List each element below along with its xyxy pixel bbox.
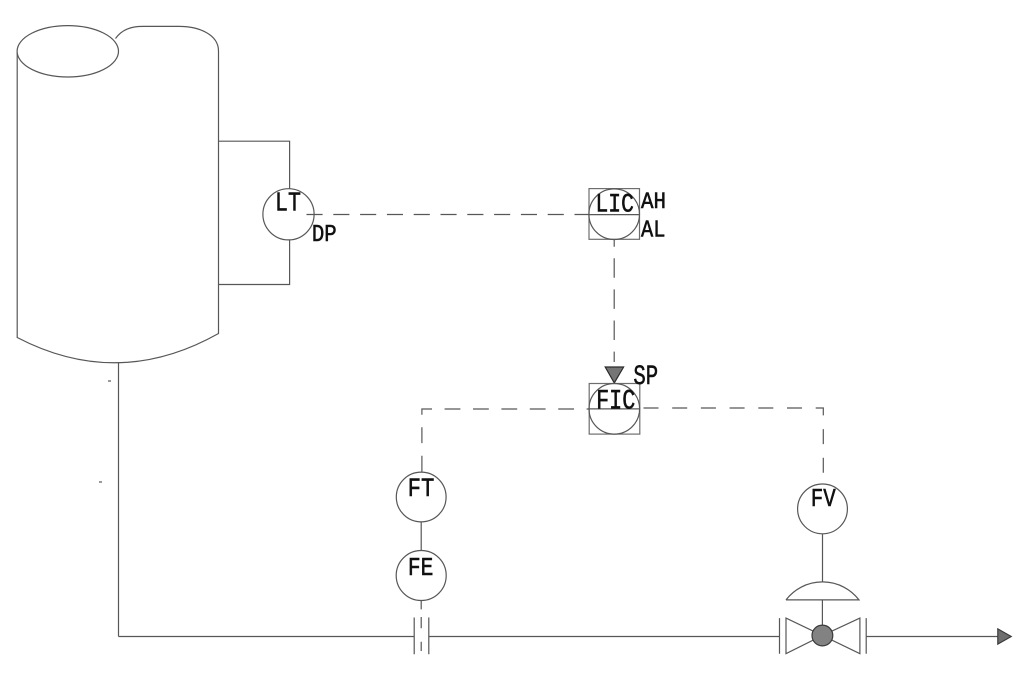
svg-text:FV: FV (811, 485, 836, 513)
svg-text:AL: AL (641, 216, 665, 244)
svg-text:LT: LT (275, 190, 301, 220)
svg-text:DP: DP (312, 221, 337, 249)
svg-text:FE: FE (408, 554, 434, 584)
svg-text:FT: FT (408, 474, 435, 505)
svg-text:FIC: FIC (596, 386, 635, 417)
svg-text:SP: SP (633, 362, 658, 393)
svg-text:LIC: LIC (596, 190, 634, 220)
svg-text:AH: AH (641, 189, 666, 215)
